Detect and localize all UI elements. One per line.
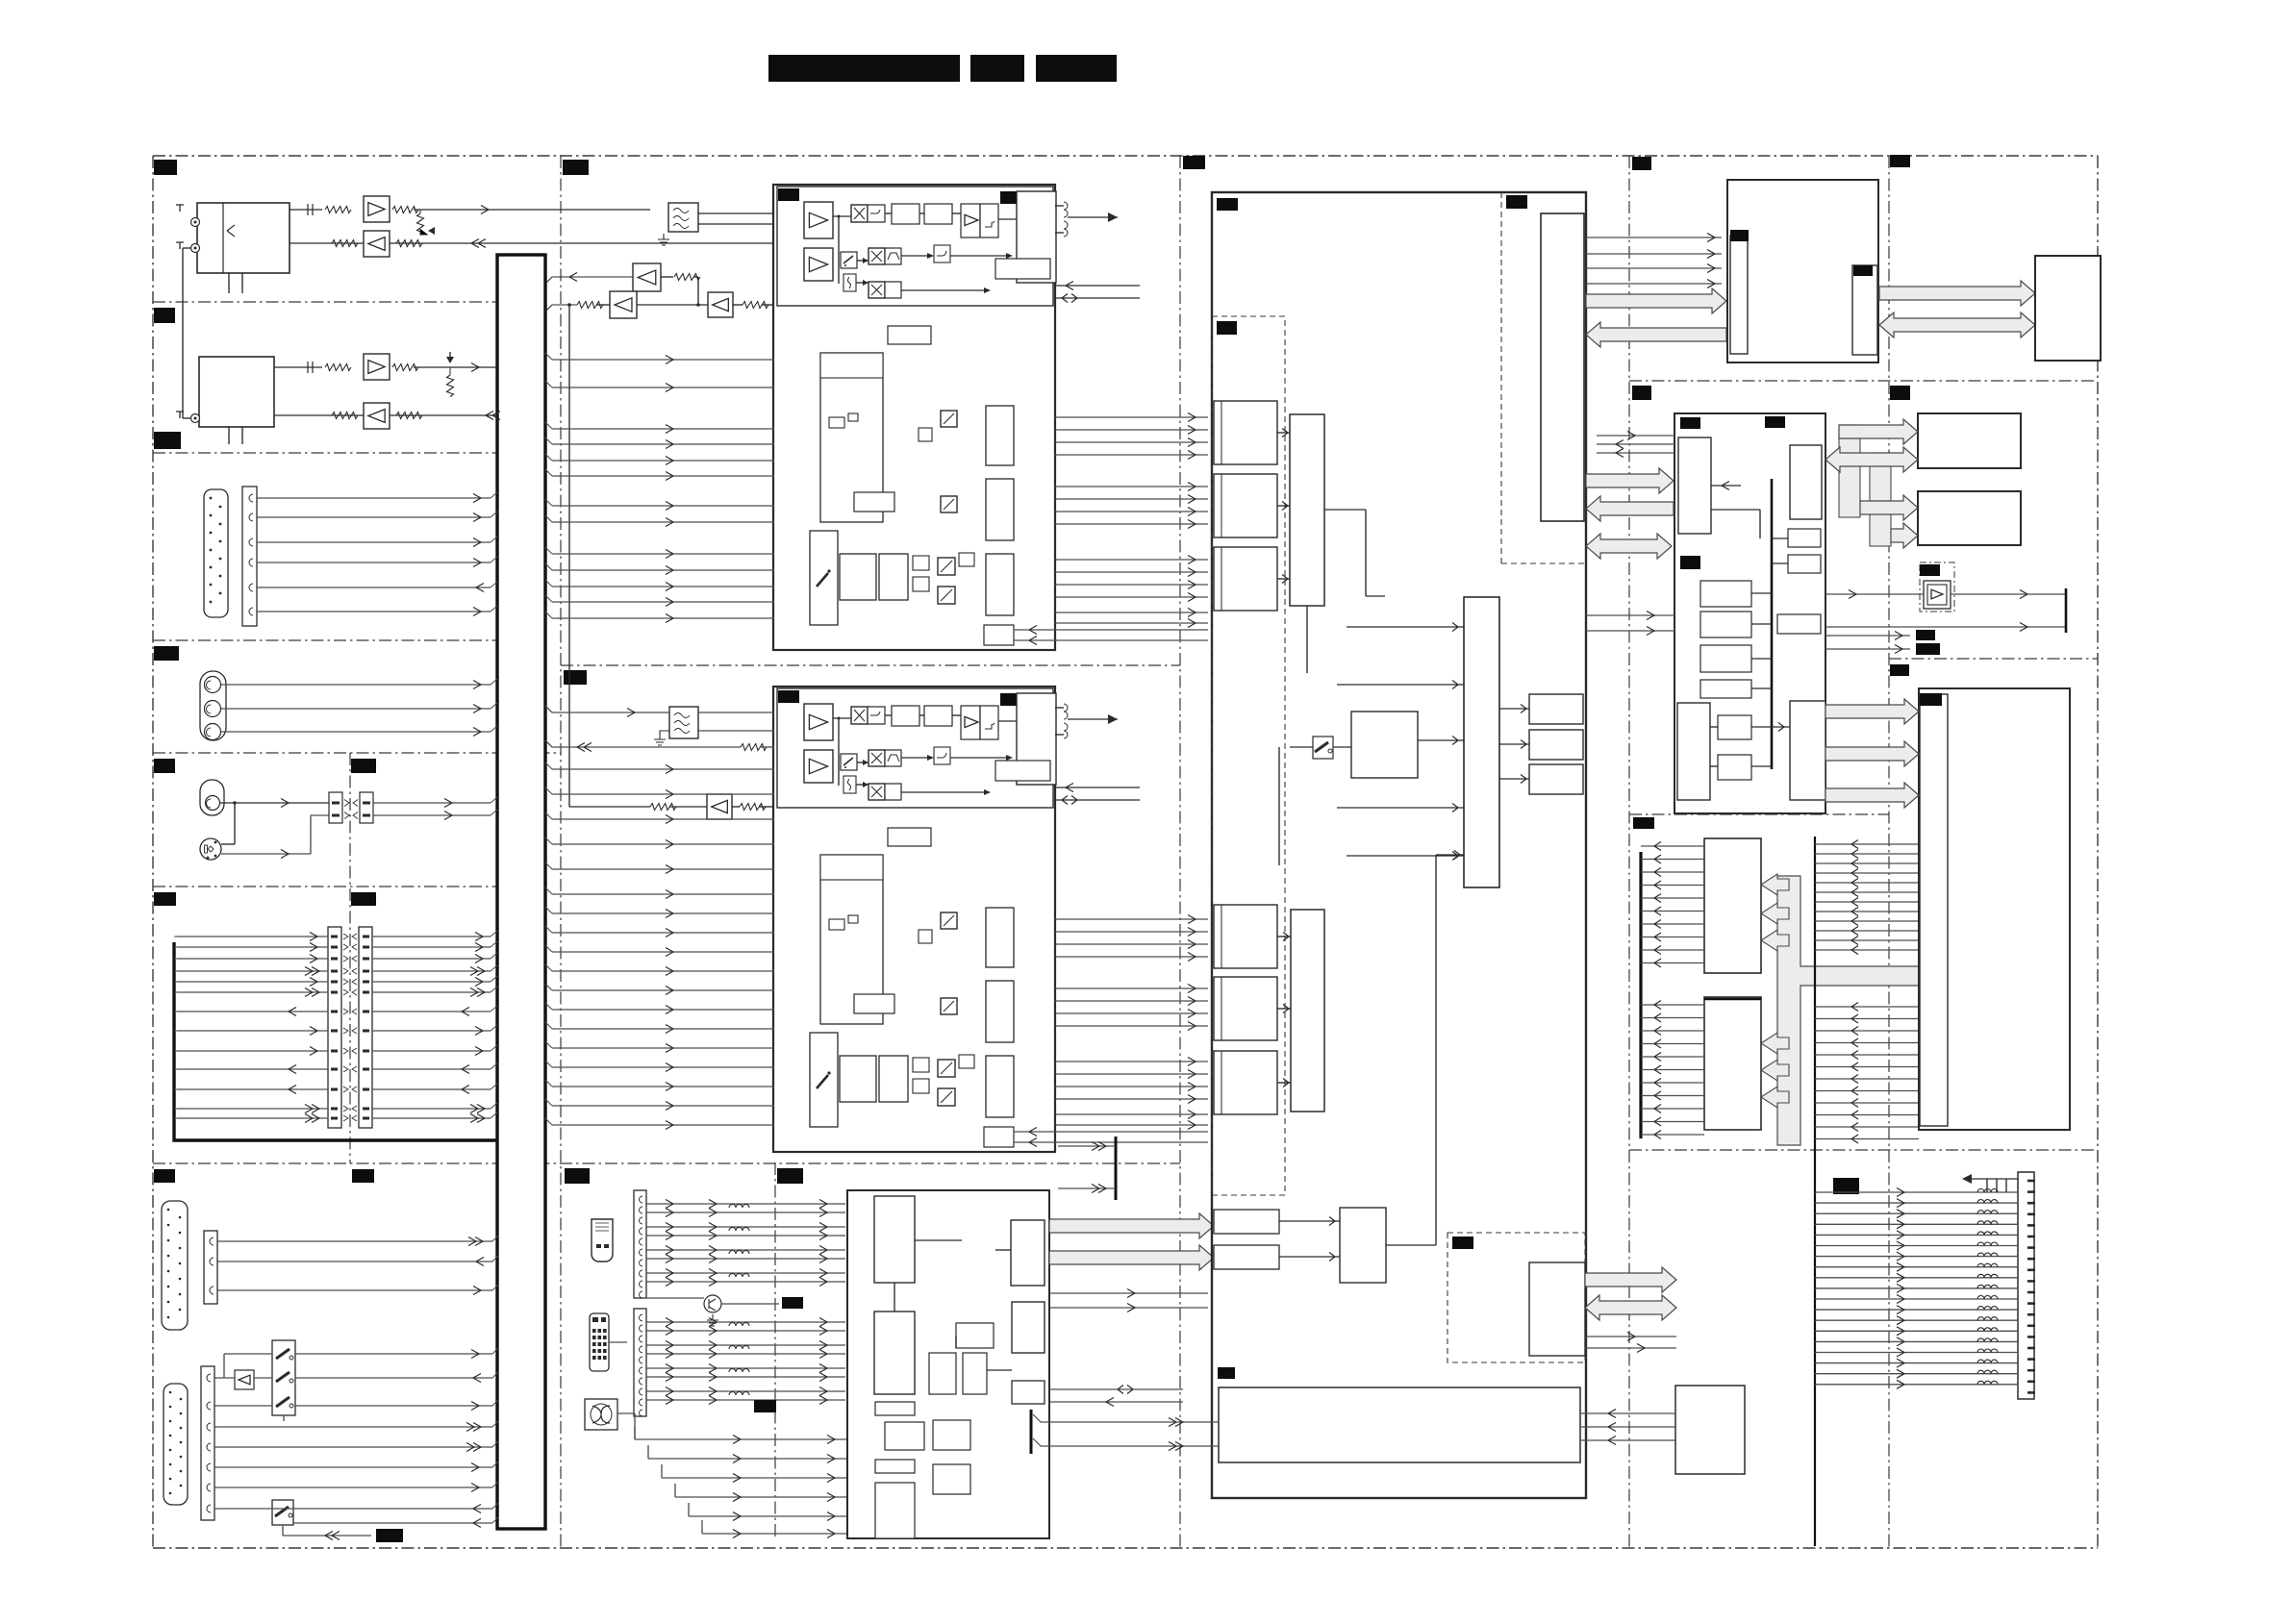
bottom-left IO boxes [1214, 1210, 1279, 1234]
divider horizontal y783 [153, 752, 561, 754]
DDR memory U51 [1918, 413, 2021, 468]
switch box SW2 [272, 1500, 293, 1525]
wire dsp thin inputs [1597, 435, 1674, 437]
divider vertical x583 [560, 156, 562, 1548]
power long box [1219, 1387, 1580, 1462]
connector SVIDEO RCA [200, 780, 224, 815]
wire power links [1580, 1412, 1675, 1414]
cpu port right [1852, 265, 1877, 355]
wire main to cpu bundle [1586, 237, 1722, 238]
headphone amp dashed [1920, 562, 1954, 612]
resistor R5 shunt [447, 375, 454, 397]
bus bar connector [497, 255, 545, 1529]
video dac boxes [1529, 694, 1583, 724]
cec bracket [1115, 1137, 1118, 1200]
wire selector feeds [1277, 432, 1290, 434]
wire return to tuner [290, 242, 364, 244]
connector AV RCA [200, 671, 226, 740]
label hdmi section b [777, 1168, 803, 1184]
amplifier A2 return [364, 231, 390, 257]
wire j3 pairs with beads [646, 1321, 845, 1323]
io box bottom [1529, 1262, 1585, 1356]
tuner TU2 stems [228, 427, 230, 444]
resistor R4 [332, 240, 358, 247]
dashed region top right inside main [1500, 192, 1502, 563]
title bar 3 [1036, 55, 1117, 82]
label tuner section [154, 160, 177, 175]
amplifier scart A8 [235, 1370, 254, 1389]
divider horizontal y471 [153, 452, 497, 454]
tuner TU2 jack [191, 414, 200, 423]
wire return path [390, 242, 774, 244]
tuner TU2 [199, 357, 274, 427]
wire antenna loop [183, 247, 190, 249]
connector SCART2 [164, 1384, 188, 1505]
pin header HDMI J2 [634, 1190, 646, 1298]
wire filter to demod [698, 212, 774, 214]
divider vertical x364 [349, 753, 351, 1163]
label component section b [351, 892, 376, 906]
wire bundle bus to demod2 [545, 762, 552, 769]
amplifier A9 [1924, 581, 1951, 609]
ground filter2 [654, 734, 666, 745]
amplifier A4 [364, 403, 390, 429]
gray bus arrows into gamma2 [1761, 1033, 1789, 1054]
pin header SCART1 [204, 1231, 217, 1304]
gray arrow main to cpu [1586, 288, 1726, 313]
wire minidin feed [221, 853, 311, 855]
divider horizontal tuner1/tuner2 y314 [153, 301, 497, 303]
title bar 1 [768, 55, 960, 82]
input box vin6 [1214, 1051, 1277, 1114]
gray bus tcon trunk [1777, 876, 1919, 1145]
pin header SCART2 [201, 1366, 214, 1520]
gray arrow hdmi to main 1 [1049, 1213, 1214, 1238]
divider horizontal y666 [153, 639, 497, 641]
label tuner2 section [154, 308, 175, 323]
wire scart2 routing [214, 1377, 235, 1379]
label transistor net [782, 1297, 803, 1309]
label main column [563, 160, 589, 175]
label ddr section [1890, 386, 1910, 400]
wire scart1 lines [217, 1240, 492, 1242]
label av section [154, 646, 179, 661]
gamma box 1 [1704, 838, 1761, 973]
selector tall box 2 [1291, 910, 1324, 1112]
label hdmi section [565, 1168, 590, 1184]
wire scart aux bottom [282, 1525, 284, 1536]
wire bottom stair bundle [634, 1426, 636, 1439]
wire ir feed [609, 1341, 627, 1343]
board boundary outer [153, 155, 2098, 157]
audio sub right [1790, 445, 1822, 519]
gray arrow cpu to flash [1879, 281, 2035, 306]
label cpu column [1632, 157, 1651, 170]
wire matrix inputs [1366, 595, 1385, 597]
wire fan feed [617, 1412, 635, 1414]
wire panel upper bundle [1815, 843, 1919, 845]
gray arrow power to right 2 [1585, 1295, 1676, 1320]
digital AV block U20 [847, 1190, 1049, 1538]
wire spdif lines [1825, 635, 1910, 637]
label scart aux [376, 1529, 403, 1542]
wire sel1 output [1324, 509, 1366, 511]
label center column [1183, 156, 1205, 169]
label audio column [1632, 386, 1651, 400]
label tcon section [1633, 817, 1654, 829]
divider vertical x806 [774, 1162, 776, 1538]
label fan net [754, 1400, 776, 1412]
audio bottom right [1790, 701, 1825, 800]
connector MINIDIN [200, 838, 221, 860]
wire gamma2 lines [1641, 1004, 1704, 1006]
audio small boxes right [1788, 529, 1821, 547]
label svideo section b [351, 759, 376, 773]
label scart section [154, 1169, 175, 1183]
gray arrow dsp to panel 1 [1825, 699, 1919, 724]
selector tall box 1 [1290, 414, 1324, 606]
wire agc loop down [567, 303, 571, 307]
label audioout section [1890, 664, 1909, 676]
divider horizontal right y685 [1889, 658, 2098, 660]
gray arrow dsp to main [1586, 496, 1674, 521]
divider vertical x1227 [1179, 156, 1181, 1548]
wire panel lines to connector [1815, 1191, 2018, 1193]
gray arrow dsp to panel 2 [1825, 741, 1919, 766]
gray arrow dsp ddr2b [1891, 523, 1918, 548]
divider horizontal y922 [153, 886, 497, 887]
gray bus arrows into gamma1 [1761, 874, 1789, 895]
wire sync wiring [1290, 746, 1313, 748]
wire panel lower bundle [1815, 1006, 1919, 1008]
wire audio internals [1751, 592, 1772, 594]
wire strip pins [2027, 1180, 2035, 1183]
pin header J1 [242, 487, 257, 626]
divider horizontal y1210 [153, 1162, 1180, 1164]
resistor R3 shunt [417, 213, 424, 236]
gray arrow dsp ddr bi [1825, 447, 1918, 472]
wire hdmi pairs with beads [646, 1203, 845, 1205]
gray arrow dsp to panel 3 [1825, 783, 1919, 808]
input box vin4 [1214, 905, 1277, 968]
wire IF line to filter [414, 209, 650, 211]
gamma box 2 [1704, 997, 1761, 1130]
audio bottom tall [1677, 703, 1710, 800]
wire dsub lines [257, 497, 491, 499]
wire power thin links [1585, 1336, 1676, 1337]
wire svideo feed [220, 802, 329, 804]
audio left column boxes [1700, 581, 1751, 607]
sync processor box [1351, 712, 1418, 778]
gray arrow main to dsp [1586, 468, 1674, 493]
resistor R2 [392, 207, 418, 213]
IF demodulator U10 [773, 185, 1208, 650]
wire component right bundle [372, 936, 491, 937]
gray arrow cpu to main [1586, 322, 1726, 347]
title bar 2 [970, 55, 1024, 82]
fan [585, 1399, 617, 1430]
switch box SW1 [272, 1340, 295, 1415]
divider horizontal right y396 [1629, 380, 2098, 382]
panel output connector strip [2018, 1172, 2034, 1399]
input box vin3 [1214, 547, 1277, 611]
gray arrow dsp ddr2 [1860, 495, 1918, 520]
label dsub section [154, 432, 181, 449]
gray arrow hdmi to main 2 [1049, 1245, 1214, 1270]
divider horizontal tcon y847 [1629, 813, 1889, 815]
label demod2 section [564, 670, 587, 685]
switch SW3 [1313, 737, 1333, 759]
wire tuner1 IF out [290, 209, 322, 211]
gray arrow dsp bi [1586, 534, 1672, 559]
wire bundle bus to demod1 [545, 353, 552, 360]
label panelconn section [1833, 1178, 1859, 1194]
flash memory U41 [2035, 256, 2101, 361]
input box vin2 [1214, 474, 1277, 537]
capacitor C1 [308, 204, 313, 215]
amplifier A3 [364, 354, 390, 380]
transistor Q1 [704, 1295, 721, 1312]
amplifier A7 [708, 292, 733, 317]
audio sub left [1678, 437, 1711, 534]
gray arrow dsp ddr1 [1839, 419, 1918, 444]
dashed io region bottom [1448, 1233, 1585, 1362]
IF demodulator U11 [773, 687, 1208, 1152]
tcon input bracket [1639, 852, 1642, 1138]
cpu port left [1730, 236, 1748, 354]
wire av lines [221, 684, 491, 686]
gray vertical link 1 [1839, 425, 1860, 517]
wire agc lower [545, 305, 577, 312]
label mem column [1890, 155, 1910, 167]
wire audio out lines [1825, 593, 1924, 595]
divider vertical x1694 [1628, 156, 1630, 1548]
coupling transformer pair [329, 792, 342, 823]
wire tuner2 return [390, 414, 497, 416]
wire u20 internal [894, 1283, 895, 1312]
component input bracket [174, 942, 497, 1140]
adc tall block U30a [1541, 213, 1584, 521]
wire tuner2 IF to bus [414, 366, 497, 368]
power right box [1675, 1386, 1745, 1474]
main video processor U30 [1212, 192, 1586, 1498]
wire dsp mid lines [1586, 614, 1674, 616]
wire demod2 return [545, 740, 741, 747]
divider horizontal y1196 [1629, 1149, 2098, 1151]
label svideo section [154, 759, 175, 773]
pin header component left [328, 927, 341, 1128]
panel top branch [1962, 1174, 1972, 1184]
amplifier A6 [610, 291, 637, 318]
SAW filter F2 demod2 [669, 707, 698, 738]
connector SCART1 [162, 1201, 188, 1330]
amplifier A1 [364, 196, 390, 222]
connector HDMI [592, 1219, 613, 1262]
wire svideo to bus [373, 802, 491, 804]
amplifier A10 demod2 agc [569, 806, 650, 808]
wire demod2 filter feed [545, 706, 669, 712]
tuner TU1 stems [228, 273, 230, 293]
wire scart2 lines to bus [295, 1353, 492, 1355]
input box vin5 [1214, 977, 1277, 1040]
tuner TU1 [197, 203, 290, 273]
wire gamma1 lines [1641, 845, 1704, 847]
ground filter [658, 234, 669, 245]
input box vin1 [1214, 401, 1277, 464]
divider vertical x1964 [1888, 156, 1890, 1548]
panel connector box [1919, 688, 2070, 1130]
label component section [154, 892, 176, 906]
dashed tuner region inside main [1212, 316, 1285, 1195]
panel inner port [1920, 694, 1948, 1126]
pin header component right [359, 927, 372, 1128]
gray arrow cpu flash bi [1879, 312, 2035, 337]
switch matrix tall box [1464, 597, 1499, 887]
divider horizontal middle y692 [561, 664, 1180, 666]
label scart section b [352, 1169, 374, 1183]
audio internal bus [1771, 479, 1774, 769]
CPU U40 [1727, 180, 1878, 362]
amplifier A5 [633, 263, 661, 291]
antenna terminal marks [176, 205, 184, 249]
wire tuner2 out [274, 366, 322, 368]
SAW filter F1 [668, 203, 698, 232]
connector DSUB1 [204, 489, 228, 617]
wire power inputs [1030, 1410, 1033, 1454]
panel feed vertical line [1814, 837, 1816, 1546]
DDR memory U52 [1918, 491, 2021, 545]
wire agc upper [545, 277, 633, 284]
resistor R1 [325, 207, 351, 213]
gray arrow power to right 1 [1585, 1267, 1676, 1292]
wire component left bundle [177, 936, 328, 937]
audio dsp block U50 [1674, 413, 1825, 813]
wire io wiring [1279, 1220, 1340, 1222]
gray vertical link 2 [1870, 453, 1891, 546]
tuner TU1 RF input jack [191, 218, 200, 227]
wire hdmi block to main small [1049, 1292, 1208, 1294]
pin header J3 [634, 1309, 646, 1416]
remote control sensor [590, 1313, 609, 1371]
